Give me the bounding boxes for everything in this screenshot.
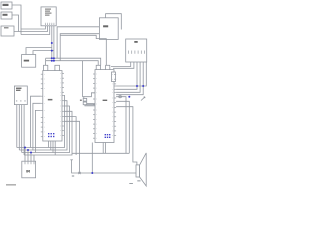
label U1 text block: [45, 9, 51, 10]
label A2: [103, 100, 108, 101]
label US1 line2: [16, 90, 21, 91]
trimpot wiper arrow: [141, 97, 145, 101]
wire us pin1: [16, 105, 18, 148]
wire us pin2: [18, 105, 20, 150]
label SPK1 value: [137, 180, 140, 181]
label LCD1 value: [134, 41, 137, 43]
node J9: [91, 172, 93, 174]
wire SW2 to net: [12, 15, 19, 32]
ir sensor IR1: [22, 161, 36, 178]
ir riser wire 4: [33, 155, 35, 161]
signal bundle wire 2: [19, 101, 67, 150]
connector J2 on A2 right edge: [112, 72, 116, 82]
resistor R1 (bubble on wire): [119, 96, 122, 98]
arduino A1 usb tab: [44, 65, 48, 70]
wire A2 right pin down 1: [116, 97, 126, 154]
signal bundle wire 1: [17, 95, 65, 147]
wire U1 pin4 to rail: [51, 26, 53, 58]
arduino A2 usb tab: [96, 65, 100, 69]
arduino A2 inner pin dots left: [95, 74, 98, 139]
crystal X1: [83, 98, 87, 101]
arduino A1 inner pin dots left: [43, 74, 46, 137]
ground rail: [46, 61, 99, 66]
ir inner pin ticks: [25, 161, 34, 164]
arduino A2 inner pin dots right: [111, 74, 114, 136]
wire us pin3: [21, 105, 23, 153]
wire: [87, 103, 95, 105]
sensor PIR1 (small box under badge): [1, 26, 14, 36]
node J4: [53, 57, 55, 59]
node J3: [51, 57, 53, 59]
speaker feed wire: [72, 160, 136, 173]
label M1 value: [103, 25, 108, 27]
wire lcd pin4: [116, 62, 140, 92]
wire A2 right pin down 2: [116, 101, 129, 153]
wire: [14, 26, 48, 32]
wire A1 bottom pin 4: [54, 141, 56, 155]
wire A1 right pin down: [64, 117, 76, 155]
node J8: [142, 85, 144, 87]
node J10: [24, 147, 26, 149]
arduino A1 body: [43, 71, 62, 141]
lcd LCD1: [126, 39, 147, 62]
wire battery minus: [33, 51, 54, 55]
wire A1 left pin F: [35, 110, 40, 152]
arduino A1 inner pin dots right: [59, 73, 62, 136]
speaker SPK1 driver: [136, 165, 140, 177]
ir riser wire 3: [30, 153, 32, 162]
wire: [21, 26, 45, 35]
lcd LCD1 inner pin markers: [129, 51, 145, 54]
node J2: [51, 50, 53, 52]
arduino A1 power tab: [55, 65, 60, 70]
battery BT1: [22, 55, 36, 68]
wire SW1 to net: [12, 5, 21, 29]
label US1 line1: [16, 88, 22, 89]
power rail: [46, 58, 101, 65]
wire motor pin2: [60, 34, 97, 61]
button S1: [83, 102, 87, 105]
wire lcd pin5: [116, 62, 143, 95]
text labels (tiny): [3, 4, 141, 186]
wire A1 bottom pin 3: [52, 141, 54, 153]
signal bundle wire 3: [22, 106, 70, 153]
wire lcd pin3: [116, 62, 137, 89]
node J11: [27, 149, 29, 151]
node J5: [51, 60, 53, 62]
wire A2 right pin to speaker top: [116, 107, 137, 165]
terminal cross: [78, 172, 80, 174]
node J13: [128, 96, 130, 98]
wire A1 right pin to net: [64, 121, 80, 173]
switch SW1 (top-left box): [1, 2, 12, 9]
wire A2 bottom pin: [105, 143, 107, 154]
wire A1 left pin E: [33, 103, 41, 150]
module U1 (top module box): [41, 7, 56, 26]
junction dots (blue): [24, 42, 144, 174]
label PIR1: [4, 27, 9, 28]
arduino A1 left pins: [41, 74, 43, 137]
watermark text: [6, 184, 16, 186]
arduino A1 right pins: [62, 74, 64, 136]
label SW1: [3, 4, 9, 6]
label BT1 value: [24, 60, 29, 62]
arduino A2 body: [95, 70, 114, 143]
ir riser wire 1: [24, 148, 26, 162]
signal bundle wire 4: [24, 111, 72, 155]
wire A2 pin to crystal: [84, 93, 95, 97]
label A1: [48, 99, 53, 101]
wire A1 left pin D: [31, 96, 41, 147]
arduino A2 icsp header (blue): [105, 134, 111, 138]
wire: [21, 26, 50, 35]
arduino A2 left pins: [93, 74, 95, 138]
wire A2 bottom pin b: [102, 143, 104, 154]
arduino A2 power tab: [106, 65, 110, 69]
module U1 pins: [45, 24, 54, 25]
label net marker: [72, 175, 74, 176]
wire A2 to speaker net: [91, 143, 93, 174]
arduino A1 icsp header (blue): [48, 133, 54, 137]
ultrasonic US1: [14, 86, 27, 105]
terminal tick: [70, 159, 73, 161]
svg-text:IR: IR: [26, 169, 30, 174]
wire us pin4: [23, 105, 25, 155]
switch SW2 (second top-left box): [1, 12, 12, 19]
wire battery plus: [26, 48, 52, 55]
node J1: [51, 42, 53, 44]
label SW2: [3, 14, 8, 16]
motor M1: [99, 18, 118, 40]
wire rail to A1 tab: [45, 58, 47, 65]
wire U1 pin5 to rail: [53, 26, 55, 61]
node J6: [53, 60, 55, 62]
label SPK1 value b: [129, 183, 133, 184]
loop wire: [72, 152, 129, 154]
motor pin stubs: [98, 27, 100, 34]
node J12: [30, 152, 32, 154]
module U1 inner pin dots: [45, 23, 55, 24]
wire A1 bottom pin 2: [50, 141, 52, 150]
wire lcd pin1: [111, 62, 131, 67]
speaker SPK1 cone: [140, 153, 147, 186]
wire rail to A2 left: [83, 61, 84, 99]
wire motor top jumper: [106, 14, 122, 30]
wire lcd pin2: [113, 62, 134, 68]
label X1: [80, 100, 82, 101]
ir riser wire 2: [27, 150, 29, 161]
arduino A2 right pins: [114, 75, 116, 136]
wire: [85, 105, 95, 106]
wire lcd pin6: [116, 62, 146, 86]
ultrasonic US1 pin stubs: [17, 100, 25, 102]
wire step to A2 tab: [60, 35, 106, 65]
wire A1 bottom pin 1: [48, 141, 50, 148]
wire motor pin1: [57, 27, 97, 58]
node J7: [136, 85, 138, 87]
